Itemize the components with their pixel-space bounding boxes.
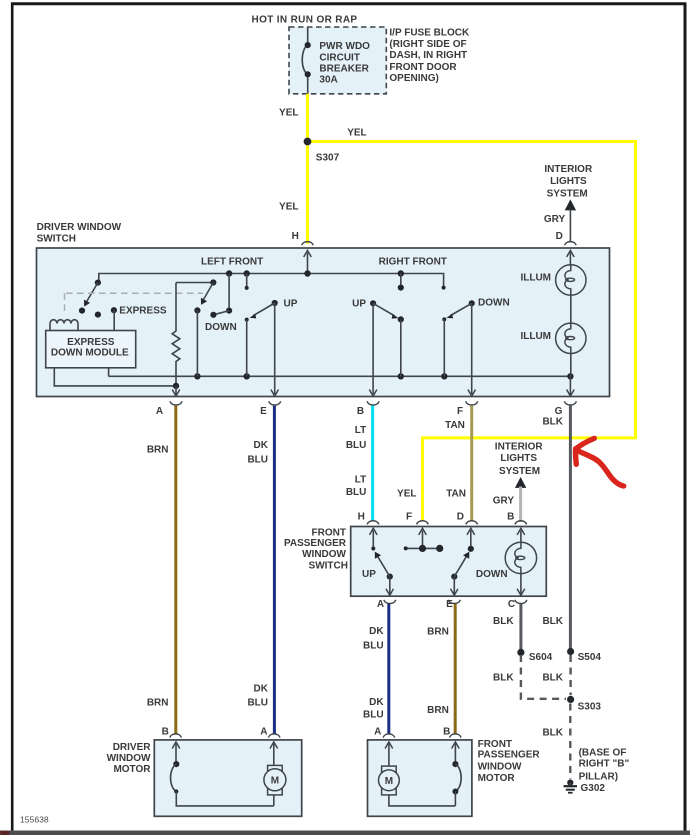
passenger motor pin A connector (374, 726, 395, 737)
passenger motor pin B connector (443, 726, 461, 737)
svg-text:WINDOW: WINDOW (478, 761, 522, 772)
driver switch pin B connector (357, 401, 379, 417)
svg-text:BLU: BLU (346, 487, 367, 498)
svg-text:BLK: BLK (542, 616, 563, 627)
svg-text:BRN: BRN (147, 698, 169, 709)
wire BRN driver switch A to driver motor B (147, 406, 176, 734)
svg-text:PILLAR): PILLAR) (579, 771, 618, 782)
driver window motor box (107, 740, 302, 816)
illumination lamp ILLUM 1 (520, 250, 586, 295)
node EXPRESS contact (111, 306, 167, 331)
svg-text:I/P FUSE BLOCK: I/P FUSE BLOCK (389, 27, 470, 38)
svg-text:ILLUM: ILLUM (520, 331, 551, 342)
front passenger window switch box (284, 527, 546, 597)
svg-text:DOWN: DOWN (476, 569, 508, 580)
express down module (46, 331, 136, 368)
ground G302 (564, 780, 606, 794)
svg-text:A: A (377, 599, 384, 610)
passenger illumination lamp (505, 528, 536, 595)
svg-text:DOWN MODULE: DOWN MODULE (51, 348, 129, 359)
wire module left leg to resistor foot (54, 368, 176, 386)
wire BRN passenger switch E to passenger motor B (427, 604, 455, 734)
wire module right leg to bottom bus (108, 368, 110, 377)
svg-text:BREAKER: BREAKER (319, 64, 369, 75)
svg-text:UP: UP (352, 298, 366, 309)
wire TAN driver switch F to passenger switch D (445, 406, 472, 521)
svg-text:E: E (446, 599, 453, 610)
wire DK BLU driver switch E to driver motor A (247, 406, 274, 734)
interior lights system arrow (middle) (493, 442, 544, 522)
passenger switch pin F connector (406, 511, 428, 524)
svg-text:C: C (508, 599, 515, 610)
svg-text:EXPRESS: EXPRESS (119, 306, 167, 317)
illumination lamp ILLUM 2 (520, 295, 586, 376)
wire YEL fuse block to S307 (279, 94, 307, 142)
svg-text:GRY: GRY (544, 214, 566, 225)
splice S604 (517, 649, 552, 663)
wire LT BLU driver switch B to passenger switch H (346, 406, 373, 521)
svg-text:YEL: YEL (397, 488, 416, 499)
svg-text:GRY: GRY (493, 495, 515, 506)
svg-text:SWITCH: SWITCH (309, 560, 348, 571)
driver window switch pin H (292, 231, 314, 245)
svg-text:DK: DK (369, 697, 384, 708)
svg-text:A: A (260, 726, 267, 737)
wire BLK dashed S604 to S303 (493, 655, 566, 699)
svg-text:PWR WDO: PWR WDO (319, 41, 370, 52)
svg-text:BLU: BLU (247, 455, 268, 466)
left front UP switch (244, 270, 298, 394)
wire BLK dashed S303 to ground G302 (542, 704, 570, 780)
passenger switch pin E connector (446, 599, 460, 610)
svg-text:FRONT: FRONT (478, 739, 512, 750)
svg-text:F: F (457, 406, 463, 417)
svg-text:DOWN: DOWN (478, 298, 510, 309)
svg-text:F: F (406, 511, 412, 522)
driver window switch pin D (556, 231, 577, 245)
svg-text:RIGHT FRONT: RIGHT FRONT (379, 257, 447, 268)
svg-text:M: M (385, 776, 393, 787)
driver motor pin A connector (260, 726, 280, 737)
annotation: hand-drawn red arrow (575, 438, 623, 486)
passenger switch pin A connector (377, 599, 396, 610)
svg-text:YEL: YEL (279, 202, 298, 213)
svg-text:HOT IN RUN OR RAP: HOT IN RUN OR RAP (252, 14, 358, 25)
svg-text:UP: UP (284, 298, 298, 309)
svg-text:M: M (271, 776, 279, 787)
driver switch pin A connector (156, 401, 182, 417)
svg-text:H: H (292, 231, 299, 242)
svg-text:ILLUM: ILLUM (520, 272, 551, 283)
wire BLK dashed S504 to S303 (542, 655, 570, 695)
svg-text:RIGHT "B": RIGHT "B" (579, 758, 630, 769)
svg-text:LT: LT (355, 474, 366, 485)
resistor (172, 283, 213, 390)
svg-text:MOTOR: MOTOR (478, 773, 516, 784)
svg-text:DOWN: DOWN (205, 322, 237, 333)
passenger UP switch (362, 552, 393, 596)
passenger switch D leg with up arrow (467, 528, 475, 552)
svg-text:DRIVER WINDOW: DRIVER WINDOW (37, 222, 122, 233)
passenger DOWN switch (451, 552, 508, 596)
svg-text:FRONT DOOR: FRONT DOOR (389, 62, 457, 73)
driver motor M symbol (264, 742, 286, 806)
svg-text:BRN: BRN (427, 627, 449, 638)
wire: top bus inside driver switch (99, 274, 446, 290)
driver switch pin F connector (457, 401, 478, 417)
svg-text:LT: LT (355, 425, 366, 436)
driver motor pin B connector (162, 726, 182, 737)
svg-text:A: A (374, 726, 381, 737)
passenger switch pin C connector (508, 599, 527, 610)
svg-text:LIGHTS: LIGHTS (500, 453, 537, 464)
splice S504 (567, 648, 601, 663)
svg-text:E: E (260, 406, 267, 417)
svg-text:EXPRESS: EXPRESS (67, 337, 115, 348)
svg-text:BLU: BLU (363, 640, 384, 651)
svg-text:FRONT: FRONT (312, 528, 346, 539)
svg-text:PASSENGER: PASSENGER (478, 750, 541, 761)
svg-text:LEFT FRONT: LEFT FRONT (201, 257, 263, 268)
coil (express down module relay) (50, 320, 78, 331)
svg-text:BLK: BLK (493, 672, 514, 683)
I/P fuse block (dashed box) (289, 27, 386, 94)
passenger switch F leg with up arrow and bar (404, 528, 444, 552)
svg-text:D: D (457, 511, 464, 522)
svg-text:(RIGHT SIDE OF: (RIGHT SIDE OF (389, 39, 466, 50)
circuit breaker PWR WDO 30A (302, 27, 370, 94)
svg-text:YEL: YEL (347, 128, 366, 139)
passenger motor internal: B leg with arrow and commutator arc (452, 742, 462, 806)
wire: H pin feed with up arrow (304, 250, 312, 276)
svg-text:B: B (357, 406, 364, 417)
interior lights system arrow (top right) (544, 164, 593, 241)
svg-text:INTERIOR: INTERIOR (495, 442, 544, 453)
svg-text:MOTOR: MOTOR (113, 764, 151, 775)
wire YEL S307 right side run to passenger switch pin F (308, 128, 636, 522)
label I/P FUSE BLOCK location note (389, 27, 470, 84)
node S307 (304, 138, 340, 164)
dashed link express switch to down switch (65, 293, 204, 314)
svg-text:DK: DK (254, 440, 269, 451)
splice S303 (567, 696, 601, 712)
front passenger window motor box (368, 739, 541, 816)
wire DK BLU passenger switch A to passenger motor A (363, 604, 389, 734)
svg-text:INTERIOR: INTERIOR (544, 164, 593, 175)
express switch (79, 280, 101, 318)
svg-text:OPENING): OPENING) (389, 73, 438, 84)
driver switch pin E connector (260, 401, 281, 417)
svg-text:S303: S303 (578, 701, 602, 712)
svg-text:DRIVER: DRIVER (113, 742, 152, 753)
svg-text:D: D (556, 231, 563, 242)
svg-text:(BASE OF: (BASE OF (579, 747, 627, 758)
svg-text:155638: 155638 (20, 815, 49, 825)
svg-text:B: B (443, 726, 450, 737)
svg-text:CIRCUIT: CIRCUIT (319, 52, 360, 63)
svg-text:BLU: BLU (363, 709, 384, 720)
wire: bottom bus inside driver switch (109, 373, 574, 379)
svg-text:SYSTEM: SYSTEM (547, 188, 588, 199)
wire BLK driver switch G down to splice S504 (542, 406, 570, 652)
svg-text:BLU: BLU (346, 440, 367, 451)
svg-text:SYSTEM: SYSTEM (499, 466, 540, 477)
svg-text:TAN: TAN (446, 488, 466, 499)
svg-text:BRN: BRN (427, 705, 449, 716)
driver switch bottom pin arrows A E B F G (172, 376, 574, 396)
wire YEL S307 to driver switch pin H (279, 142, 307, 244)
wire BLK passenger switch C to splice S604 (493, 604, 521, 652)
left front DOWN switch (194, 270, 236, 376)
svg-text:WINDOW: WINDOW (107, 753, 151, 764)
svg-text:30A: 30A (319, 75, 337, 86)
svg-text:DK: DK (369, 626, 384, 637)
right front UP switch (352, 270, 404, 394)
location note base of right B pillar (579, 747, 630, 782)
driver window switch box (37, 222, 610, 396)
svg-text:G302: G302 (581, 783, 606, 794)
svg-text:PASSENGER: PASSENGER (284, 538, 347, 549)
passenger switch pin B connector (507, 511, 526, 524)
driver switch pin G connector (555, 401, 577, 417)
svg-text:TAN: TAN (445, 420, 465, 431)
right front DOWN switch (442, 298, 509, 395)
svg-text:BLK: BLK (493, 616, 514, 627)
svg-text:BLK: BLK (542, 416, 563, 427)
svg-text:BLK: BLK (542, 727, 563, 738)
svg-text:BRN: BRN (147, 444, 169, 455)
svg-text:S307: S307 (316, 152, 340, 163)
passenger motor M symbol (379, 742, 456, 806)
svg-text:A: A (156, 406, 163, 417)
svg-text:YEL: YEL (279, 108, 298, 119)
passenger switch pin H connector (358, 511, 379, 524)
svg-text:S504: S504 (578, 652, 602, 663)
svg-text:WINDOW: WINDOW (302, 549, 346, 560)
svg-text:LIGHTS: LIGHTS (550, 176, 587, 187)
svg-text:BLK: BLK (542, 672, 563, 683)
passenger switch H leg with up arrow (370, 528, 378, 550)
svg-text:S604: S604 (529, 652, 553, 663)
svg-text:B: B (507, 511, 514, 522)
svg-text:H: H (358, 511, 365, 522)
passenger switch pin D connector (457, 511, 478, 524)
svg-text:BLU: BLU (247, 698, 268, 709)
svg-text:UP: UP (362, 569, 376, 580)
svg-text:DASH, IN RIGHT: DASH, IN RIGHT (389, 50, 467, 61)
svg-text:DK: DK (254, 683, 269, 694)
driver motor internal: B leg with arrow and commutator arc (171, 742, 274, 806)
svg-text:B: B (162, 726, 169, 737)
svg-text:SWITCH: SWITCH (37, 234, 76, 245)
